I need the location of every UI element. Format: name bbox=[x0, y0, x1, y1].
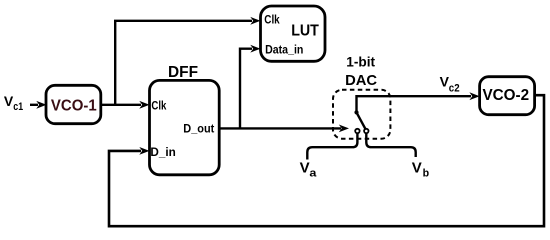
svg-text:DFF: DFF bbox=[168, 64, 198, 81]
wire Vc1 input arrow into VCO-1 bbox=[30, 101, 47, 109]
block DFF with label bbox=[150, 64, 220, 175]
svg-text:DAC: DAC bbox=[345, 73, 377, 89]
svg-text:c2: c2 bbox=[449, 82, 460, 94]
block VCO-2 bbox=[480, 77, 535, 115]
svg-text:V: V bbox=[300, 159, 310, 176]
svg-text:D_out: D_out bbox=[183, 122, 214, 136]
svg-text:LUT: LUT bbox=[291, 23, 319, 40]
label Va bbox=[300, 159, 318, 179]
block LUT bbox=[261, 6, 326, 61]
svg-text:VCO-1: VCO-1 bbox=[51, 98, 97, 115]
wire branch junction from D_out line up to LUT Data_in bbox=[240, 45, 261, 129]
label 1-bit DAC bbox=[345, 54, 377, 90]
wire contact b down to Vb bbox=[366, 133, 415, 157]
svg-text:1-bit: 1-bit bbox=[346, 54, 375, 70]
svg-text:Clk: Clk bbox=[151, 99, 166, 113]
wire DFF D_out to DAC switch (control) bbox=[220, 124, 350, 132]
switch SW1 lever bbox=[357, 112, 367, 130]
label Vb bbox=[412, 159, 430, 179]
block VCO-1 bbox=[46, 85, 101, 123]
wire VCO-1 output to DFF Clk bbox=[101, 101, 150, 109]
svg-text:D_in: D_in bbox=[150, 145, 175, 159]
svg-text:V: V bbox=[412, 159, 422, 176]
switch SW1 contact b (open circle) bbox=[364, 129, 368, 133]
svg-text:c1: c1 bbox=[13, 101, 23, 113]
wire contact a down to Va bbox=[307, 133, 357, 159]
svg-text:VCO-2: VCO-2 bbox=[483, 87, 530, 104]
switch SW1 pole wire up and out to VCO-2 bbox=[357, 92, 480, 112]
label Vc2 (net to VCO-2) bbox=[440, 74, 460, 95]
svg-text:Clk: Clk bbox=[264, 13, 280, 27]
label Vc1 (input net) bbox=[4, 93, 23, 113]
block DAC dashed outline bbox=[333, 90, 390, 139]
svg-text:Data_in: Data_in bbox=[265, 42, 303, 56]
svg-text:b: b bbox=[423, 167, 430, 179]
svg-text:a: a bbox=[309, 167, 317, 179]
wire feedback loop VCO-2 output to DFF D_in bbox=[109, 95, 544, 226]
wire branch junction up from VCO-1 output to LUT Clk bbox=[115, 17, 260, 105]
switch SW1 pole dot bbox=[354, 110, 358, 114]
switch SW1 contact a (open circle) bbox=[355, 129, 359, 133]
